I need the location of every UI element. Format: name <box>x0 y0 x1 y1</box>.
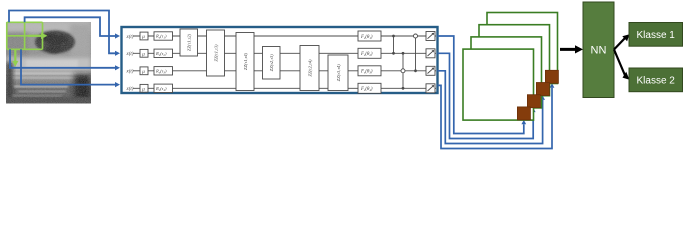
wire row 1 <box>133 35 436 37</box>
block Rx(&#964;2) autocorrelation row 2 <box>154 49 173 57</box>
svg-text:Fx(θ1): Fx(θ1) <box>360 35 373 40</box>
svg-text:Klasse 2: Klasse 2 <box>637 76 676 87</box>
feature map sheet 3 <box>479 25 550 96</box>
block B row 4 <box>140 84 148 92</box>
block B row 3 <box>140 67 148 75</box>
brown patch marker 1 <box>517 107 530 120</box>
wire row 2 output to feature map 2 <box>438 53 534 138</box>
wire junction V2 rows 2-4 <box>402 53 404 88</box>
block sensor/adjust S4 row 4 <box>426 84 435 93</box>
block B row 2 <box>140 49 148 57</box>
wire: grid cell to row 2 input <box>9 11 117 54</box>
block ZZ(&#964;2,&#964;4) cross-correlator U5 <box>300 46 319 91</box>
block Fx(&#952;1) row 1 <box>358 31 381 41</box>
green 2x2 scan grid overlay <box>7 22 43 49</box>
neural network block NN <box>583 2 614 98</box>
block ZZ(&#964;3,&#964;4) cross-correlator U6 <box>328 55 348 91</box>
wire row 4 output to feature map 4 <box>438 85 553 148</box>
arrow NN to Klasse 1 <box>614 38 626 50</box>
wire: grid cell to row 3 input <box>10 49 117 68</box>
block Rx(&#964;1) autocorrelation row 1 <box>154 32 173 40</box>
block ZZ(&#964;1,&#964;4) cross-correlator U3 <box>236 33 254 91</box>
green scan-direction arrow right <box>28 33 48 39</box>
svg-text:Fx(θ3): Fx(θ3) <box>360 70 373 75</box>
block B row 1 <box>140 32 148 40</box>
wire row 4 <box>133 87 436 89</box>
block sensor/adjust S1 row 1 <box>426 32 435 41</box>
svg-text:x(t): x(t) <box>126 70 134 75</box>
block Fx(&#952;4) row 4 <box>358 83 381 93</box>
svg-text:Fx(θ4): Fx(θ4) <box>360 87 373 92</box>
arrow stack to NN <box>560 48 577 51</box>
wire row 1 output to feature map 1 <box>438 36 524 134</box>
feature map sheet 2 <box>471 37 542 108</box>
block sensor/adjust S3 row 3 <box>426 66 435 75</box>
block ZZ(&#964;1,&#964;2) cross-correlator U1 <box>180 29 198 56</box>
wire junction V1 rows 1-2 <box>393 36 395 53</box>
block ZZ(&#964;2,&#964;3) cross-correlator U4 <box>263 47 281 80</box>
arrow NN to Klasse 2 <box>614 50 626 77</box>
brown patch marker 3 <box>536 83 549 96</box>
output class box Klasse 1 <box>629 23 683 47</box>
block sensor/adjust S2 row 2 <box>426 49 435 58</box>
wire row 2 <box>133 52 436 54</box>
svg-text:x(t): x(t) <box>126 35 134 40</box>
wire: grid cell to row 4 input <box>21 49 117 84</box>
svg-text:Klasse 1: Klasse 1 <box>637 30 676 41</box>
output class box Klasse 2 <box>629 68 683 92</box>
green scan-direction arrow down <box>12 50 18 67</box>
brown patch marker 4 <box>545 70 558 83</box>
wire row 3 output to feature map 3 <box>438 71 543 144</box>
block Fx(&#952;2) row 2 <box>358 48 381 58</box>
processing pipeline box <box>122 27 438 93</box>
svg-text:x(t): x(t) <box>126 52 134 57</box>
ultrasound input image <box>6 20 91 104</box>
block ZZ(&#964;1,&#964;3) cross-correlator U2 <box>207 30 225 76</box>
block Rx(&#964;4) autocorrelation row 4 <box>154 84 173 92</box>
block Rx(&#964;3) autocorrelation row 3 <box>154 67 173 75</box>
svg-text:Fx(θ2): Fx(θ2) <box>360 52 373 57</box>
svg-text:x(t): x(t) <box>126 87 134 92</box>
svg-text:NN: NN <box>591 45 607 57</box>
feature map sheet 1 <box>463 49 534 120</box>
wire: grid cell to row 1 input <box>25 17 117 36</box>
wire row 3 <box>133 70 436 72</box>
feature map sheet 4 <box>487 13 558 84</box>
brown patch marker 2 <box>527 95 540 108</box>
block Fx(&#952;3) row 3 <box>358 66 381 76</box>
wire junction V3 rows 1-3 <box>415 36 417 71</box>
